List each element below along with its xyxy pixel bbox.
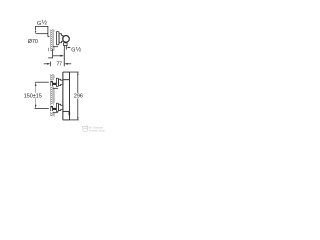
svg-text:Mr. Wachtel: Mr. Wachtel xyxy=(89,125,103,129)
296 dim top extension line xyxy=(70,71,79,73)
label 296 xyxy=(74,94,83,100)
lower anchor white slit xyxy=(50,107,53,111)
top cap divider xyxy=(63,79,70,81)
svg-text:Ø70: Ø70 xyxy=(28,39,38,45)
union nut (top view) xyxy=(59,34,63,43)
bracket leg lower stub xyxy=(47,48,49,51)
upper connection pipe (thick) xyxy=(53,83,57,85)
dim 77 line with right arrow xyxy=(53,55,62,57)
lower wall anchor (dark) xyxy=(50,106,53,111)
dim 77 extension line A (wall face) xyxy=(52,49,54,58)
bottom cap divider xyxy=(63,110,70,112)
upper union nut xyxy=(59,79,63,85)
svg-text:77: 77 xyxy=(57,62,63,68)
body left edge reinforcement xyxy=(62,72,64,119)
dim 77 outside arrow right xyxy=(65,63,68,65)
label 150+-15 xyxy=(24,94,42,100)
leader arrow to outlet thread xyxy=(67,47,70,48)
dim 77 short left extension xyxy=(50,62,52,67)
body right edge nub xyxy=(68,112,70,115)
wall band edges (front view) xyxy=(50,74,53,116)
svg-text:Fenster Shop: Fenster Shop xyxy=(89,129,106,133)
O70 extension line xyxy=(36,33,48,35)
150 dim bottom extension line xyxy=(35,108,49,110)
lower escutcheon (front view) xyxy=(56,103,58,111)
svg-text:G½: G½ xyxy=(71,45,82,53)
svg-text:150±15: 150±15 xyxy=(24,94,42,100)
dim 77 extension line B (outlet axis) xyxy=(63,50,65,67)
S-union contour below upper escutcheon xyxy=(53,87,58,89)
valve body cross-section circle xyxy=(63,36,70,43)
svg-text:296: 296 xyxy=(74,94,83,100)
label G1/2 outlet xyxy=(71,45,82,53)
wall hatch strokes (top view) xyxy=(51,30,53,52)
upper escutcheon (front view) xyxy=(56,78,58,86)
dim 77 outside arrow left xyxy=(44,63,47,65)
296 dim line xyxy=(77,72,79,93)
G1/2 dimension bracket xyxy=(36,26,48,36)
wall section hatched (top view) xyxy=(50,29,53,51)
thermostat body outline xyxy=(63,72,70,120)
296 down arrow xyxy=(77,117,78,120)
outlet nipple base xyxy=(64,43,68,46)
label 77 xyxy=(57,62,63,68)
upper wall anchor (dark) xyxy=(50,81,53,86)
S-union contour below lower escutcheon xyxy=(53,112,58,114)
296 dim bottom extension line xyxy=(70,119,79,121)
label G1/2 wall thread xyxy=(37,19,48,27)
watermark logo bottom right xyxy=(82,125,88,131)
bracket arrow into wall xyxy=(48,36,51,37)
150 dim top extension line xyxy=(35,81,49,83)
dim 77 tail dash xyxy=(48,57,53,59)
296 up arrow xyxy=(77,72,78,75)
finished wall face line (top view) xyxy=(53,30,55,50)
wall hatch strokes (front view) xyxy=(51,75,53,117)
escutcheon edge-on (top view) xyxy=(57,32,59,45)
svg-text:G½: G½ xyxy=(37,19,48,27)
label O70 escutcheon diameter xyxy=(28,39,38,45)
bracket down arrow xyxy=(35,31,36,34)
lower connection pipe (thick) xyxy=(53,108,57,110)
150 dim line upper segment + up arrow xyxy=(35,82,37,108)
outlet nipple lines xyxy=(63,46,65,50)
lower union nut xyxy=(59,104,63,110)
watermark text xyxy=(89,125,106,132)
S-union contour line below escutcheon (top view) xyxy=(53,46,58,48)
finished wall face line (front view) xyxy=(53,75,55,117)
upper anchor white slit xyxy=(50,82,53,86)
